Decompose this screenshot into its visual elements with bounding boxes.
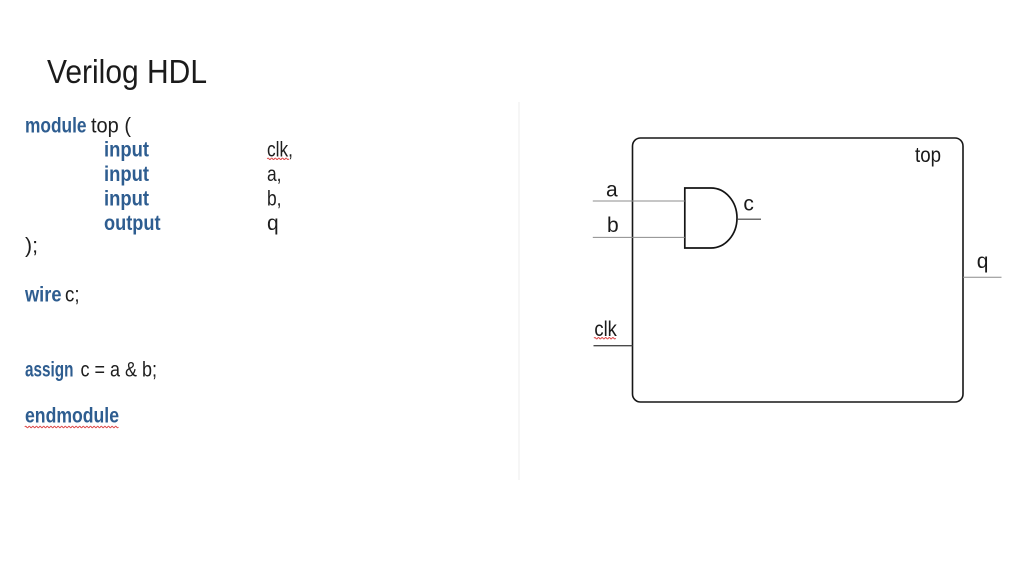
code line: input a, [104,163,282,186]
svg-text:top: top [915,144,941,167]
wire c [737,218,761,220]
spellcheck squiggle under clk [267,158,289,159]
svg-text:endmodule: endmodule [25,405,119,428]
wire a [593,200,685,202]
svg-text:q: q [977,250,989,273]
code line: input clk, [104,139,293,162]
svg-text:input: input [104,187,149,210]
module box "top" [633,138,964,402]
divider line [518,102,520,480]
svg-text:assign: assign [25,358,74,381]
svg-text:c: c [743,192,754,215]
svg-text:a,: a, [267,163,282,186]
code line: output q [104,212,279,235]
spellcheck squiggle under endmodule [25,426,119,427]
and-gate U1 [685,188,737,248]
svg-text:);: ); [25,235,38,258]
wire clk [594,345,633,347]
svg-text:module: module [25,115,87,138]
svg-text:top (: top ( [91,115,131,138]
code line: input b, [104,187,282,210]
wire q [963,276,1002,278]
spellcheck squiggle under clk label [594,338,616,339]
svg-text:input: input [104,163,149,186]
svg-text:b: b [607,214,619,237]
wire b [593,236,685,238]
svg-text:output: output [104,212,161,235]
code line: wire c; [24,283,79,306]
svg-text:q: q [267,212,279,235]
svg-text:Verilog HDL: Verilog HDL [47,54,207,91]
svg-text:wire: wire [24,283,61,306]
svg-text:b,: b, [267,187,282,210]
svg-text:c;: c; [65,283,80,306]
svg-text:a: a [606,178,618,201]
svg-text:c = a & b;: c = a & b; [81,358,158,381]
code line: assign c = a & b; [25,358,157,381]
code line: module top ( [25,115,131,138]
svg-text:input: input [104,139,149,162]
